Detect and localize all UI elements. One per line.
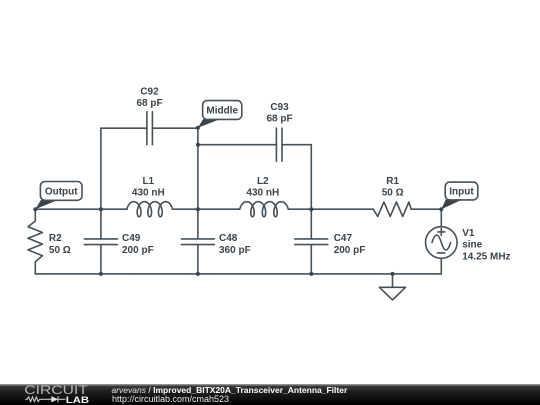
junction C49 bottom (99, 272, 103, 276)
wire Middle to C93 (198, 144, 277, 146)
junction C48 top (196, 207, 200, 211)
svg-text:50 Ω: 50 Ω (49, 245, 71, 256)
svg-text:V1: V1 (462, 228, 475, 239)
junction C47 top (309, 207, 313, 211)
wire Middle riser x=197.9 (197, 128, 199, 209)
svg-text:C92: C92 (140, 86, 159, 97)
wire main row: output node to L1 (35, 208, 127, 210)
junction C93 branch (196, 143, 200, 147)
inductor L1 (127, 202, 173, 217)
svg-text:C49: C49 (122, 233, 141, 244)
wire V1 to bottom rail (440, 258, 442, 274)
svg-text:LAB: LAB (66, 395, 90, 405)
footer line 2 (112, 394, 229, 404)
node Output junction (33, 207, 37, 211)
svg-text:R2: R2 (49, 233, 62, 244)
capacitor C47 (295, 209, 328, 274)
wire R1 to input node (411, 208, 441, 210)
node Middle junction (196, 126, 200, 130)
svg-text:14.25 MHz: 14.25 MHz (462, 251, 510, 262)
node Input junction (439, 207, 443, 211)
wire C93 to right riser (282, 144, 311, 146)
svg-text:68 pF: 68 pF (136, 98, 162, 109)
svg-text:Middle: Middle (206, 106, 238, 117)
wire input node to V1 (440, 209, 442, 227)
node flag Middle (198, 101, 242, 128)
svg-text:C47: C47 (334, 233, 353, 244)
CircuitLab logo (24, 385, 96, 405)
svg-text:360 pF: 360 pF (219, 245, 251, 256)
capacitor C93 (276, 128, 282, 161)
svg-text:430 nH: 430 nH (246, 187, 279, 198)
capacitor C49 (84, 209, 117, 274)
wire left riser x=100.9 (100, 128, 102, 209)
svg-text:L2: L2 (257, 176, 269, 187)
svg-text:Input: Input (449, 187, 474, 198)
junction C49 top (99, 207, 103, 211)
junction C47 bottom (309, 272, 313, 276)
resistor R1 (373, 202, 411, 216)
inductor L2 (240, 202, 289, 217)
wire L1 to L2 (173, 208, 240, 210)
wire top-left horizontal to C92 (101, 127, 147, 129)
svg-text:200 pF: 200 pF (122, 245, 154, 256)
svg-text:C48: C48 (219, 233, 238, 244)
node flag Output (35, 182, 82, 210)
capacitor C92 (147, 112, 153, 145)
junction ground (391, 272, 395, 276)
resistor R2 (28, 209, 43, 274)
svg-text:sine: sine (462, 240, 482, 251)
source V1 sine 14.25 MHz (426, 227, 458, 259)
wire C92 to Middle node (152, 127, 198, 129)
node flag Input (441, 182, 478, 209)
svg-text:430 nH: 430 nH (132, 187, 165, 198)
footer line 1 (112, 385, 348, 395)
wire L2 to R1 (288, 208, 373, 210)
svg-text:L1: L1 (142, 176, 154, 187)
ground (379, 274, 405, 300)
svg-text:50 Ω: 50 Ω (382, 187, 404, 198)
footer bar (0, 384, 540, 405)
svg-text:Output: Output (45, 186, 78, 197)
svg-text:200 pF: 200 pF (334, 245, 366, 256)
wire right riser x=311.3 (310, 145, 312, 210)
svg-text:68 pF: 68 pF (266, 114, 292, 125)
svg-text:C93: C93 (270, 102, 289, 113)
capacitor C48 (181, 209, 214, 274)
junction C48 bottom (196, 272, 200, 276)
wire bottom row (35, 273, 441, 275)
svg-text:R1: R1 (386, 176, 399, 187)
